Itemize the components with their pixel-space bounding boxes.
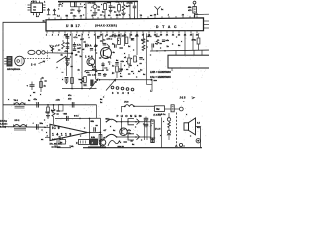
svg-text:68k: 68k xyxy=(91,121,95,123)
svg-text:x: x xyxy=(151,125,153,127)
svg-text:C4x = MM6B5935: C4x = MM6B5935 xyxy=(150,75,171,79)
svg-text:4.7: 4.7 xyxy=(104,129,108,132)
svg-text:x: x xyxy=(62,79,64,81)
svg-text:11: 11 xyxy=(106,35,109,37)
svg-text:1x: 1x xyxy=(167,46,170,48)
svg-text:(14-day: (14-day xyxy=(0,120,8,123)
svg-text:4.7x: 4.7x xyxy=(77,43,82,46)
svg-text:47x: 47x xyxy=(148,35,152,38)
svg-text:47x: 47x xyxy=(34,98,38,101)
svg-text:4A: 4A xyxy=(108,14,111,17)
svg-text:23: 23 xyxy=(178,35,181,37)
svg-text:IC 9: IC 9 xyxy=(52,126,60,130)
svg-text:x: x xyxy=(163,121,165,123)
svg-text:47x: 47x xyxy=(65,50,69,53)
svg-text:4x: 4x xyxy=(102,11,105,14)
svg-text:1x: 1x xyxy=(161,9,164,11)
svg-text:4x: 4x xyxy=(143,73,146,76)
svg-text:+: + xyxy=(33,122,35,124)
svg-text:4x: 4x xyxy=(113,51,116,54)
svg-text:4.7k: 4.7k xyxy=(66,42,71,45)
svg-text:x4: x4 xyxy=(82,48,85,51)
svg-text:x4x: x4x xyxy=(166,39,170,42)
svg-text:L.P: L.P xyxy=(57,45,61,47)
svg-text:J-1.5 Cx: J-1.5 Cx xyxy=(158,114,167,116)
svg-text:x: x xyxy=(89,37,91,39)
svg-text:=: = xyxy=(58,9,60,11)
svg-text:45A: 45A xyxy=(188,6,192,9)
svg-text:0.1: 0.1 xyxy=(113,7,117,9)
svg-text:xxx: xxx xyxy=(120,48,124,50)
svg-text:15: 15 xyxy=(130,35,133,37)
svg-text:4x: 4x xyxy=(147,40,150,43)
svg-text:x: x xyxy=(133,49,135,51)
svg-text:x: x xyxy=(190,135,192,137)
svg-text:xx: xx xyxy=(160,43,163,45)
svg-text:4x: 4x xyxy=(178,44,181,47)
svg-text:listed): listed) xyxy=(0,126,6,129)
svg-text:xx: xx xyxy=(131,141,134,143)
svg-text:x: x xyxy=(133,73,135,75)
svg-text:x: x xyxy=(160,48,162,50)
svg-text:082: 082 xyxy=(64,114,68,116)
svg-text:x: x xyxy=(147,47,149,49)
svg-text:47x 4x: 47x 4x xyxy=(114,35,121,38)
svg-text:24: 24 xyxy=(184,34,187,37)
svg-text:JH-6: JH-6 xyxy=(124,101,129,103)
svg-text:4x: 4x xyxy=(116,59,119,62)
svg-text:xx: xx xyxy=(128,73,131,75)
svg-text:4x: 4x xyxy=(42,77,45,80)
svg-text:22: 22 xyxy=(172,35,175,37)
svg-text:470: 470 xyxy=(68,98,72,101)
svg-text:txt: txt xyxy=(33,9,36,12)
svg-text:xx: xx xyxy=(84,7,87,9)
svg-text:1 4 1 1 9: 1 4 1 1 9 xyxy=(52,132,72,136)
svg-text:x: x xyxy=(30,95,32,97)
svg-text:470x: 470x xyxy=(192,38,197,41)
svg-text:2 - 6: 2 - 6 xyxy=(31,64,36,66)
svg-text:xx: xx xyxy=(57,113,60,115)
svg-text:1: 1 xyxy=(46,35,48,37)
svg-text:4x: 4x xyxy=(132,143,135,146)
svg-text:4x: 4x xyxy=(113,129,116,132)
svg-text:x: x xyxy=(8,99,10,101)
svg-text:D T A C: D T A C xyxy=(156,25,178,29)
svg-text:xx: xx xyxy=(98,10,101,12)
svg-text:4x: 4x xyxy=(120,75,123,78)
svg-text:x: x xyxy=(103,96,105,98)
svg-text:4x: 4x xyxy=(114,10,117,13)
svg-text:1x: 1x xyxy=(128,46,131,48)
svg-text:xx: xx xyxy=(78,35,81,37)
svg-text:x: x xyxy=(150,54,152,56)
svg-text:1xxx: 1xxx xyxy=(107,2,112,4)
svg-text:x: x xyxy=(97,45,99,47)
svg-text:x: x xyxy=(84,127,86,129)
svg-text:x: x xyxy=(141,139,143,141)
svg-text:x: x xyxy=(91,10,93,12)
svg-text:x8: x8 xyxy=(75,54,78,56)
svg-text:4: 4 xyxy=(110,57,112,60)
svg-text:L.R: L.R xyxy=(46,112,50,114)
svg-text:2: 2 xyxy=(52,35,54,37)
svg-text:x: x xyxy=(172,44,174,46)
svg-text:T9-1: T9-1 xyxy=(14,100,19,102)
svg-text:x: x xyxy=(137,65,139,67)
svg-text:x: x xyxy=(42,130,44,132)
svg-text:xx: xx xyxy=(33,92,36,94)
svg-text:470: 470 xyxy=(188,9,192,12)
svg-text:LNB = HH6B5936: LNB = HH6B5936 xyxy=(150,70,171,74)
svg-text:U B 17: U B 17 xyxy=(66,24,80,28)
svg-text:x Ax: x Ax xyxy=(92,74,97,77)
svg-text:5: 5 xyxy=(104,15,106,17)
svg-text:x: x xyxy=(101,4,103,6)
svg-text:P H O N E S: P H O N E S xyxy=(117,114,142,118)
svg-text:20: 20 xyxy=(160,35,163,37)
svg-text:J-2 5: J-2 5 xyxy=(180,96,186,100)
svg-text:x: x xyxy=(62,6,64,8)
svg-text:(7-1.5: (7-1.5 xyxy=(155,128,161,130)
svg-text:4x: 4x xyxy=(78,50,81,53)
svg-text:microphone: microphone xyxy=(7,69,21,71)
svg-text:3w: 3w xyxy=(156,109,159,111)
svg-text:x: x xyxy=(57,67,59,69)
svg-text:xx: xx xyxy=(126,69,129,71)
svg-text:33: 33 xyxy=(182,14,185,16)
svg-text:x: x xyxy=(120,142,122,144)
svg-text:x: x xyxy=(62,3,64,5)
svg-text:xx: xx xyxy=(41,139,44,141)
svg-text:DP-2: DP-2 xyxy=(15,120,21,122)
svg-text:10u: 10u xyxy=(40,123,44,125)
svg-text:xx: xx xyxy=(100,15,103,17)
svg-text:21: 21 xyxy=(66,16,69,18)
svg-text:x: x xyxy=(110,126,112,128)
svg-text:4x: 4x xyxy=(140,68,143,71)
svg-text:xx: xx xyxy=(96,125,99,127)
svg-text:x: x xyxy=(83,15,85,17)
svg-text:4x: 4x xyxy=(61,53,64,56)
svg-text:xx: xx xyxy=(140,63,143,65)
svg-text:xx: xx xyxy=(45,81,48,83)
svg-text:47x: 47x xyxy=(68,94,72,97)
svg-text:x: x xyxy=(96,52,98,54)
svg-text:x: x xyxy=(80,135,82,137)
svg-text:x: x xyxy=(186,114,188,116)
svg-text:xx: xx xyxy=(106,70,109,72)
svg-text:38: 38 xyxy=(154,15,157,17)
svg-text:x1x: x1x xyxy=(121,61,125,63)
svg-text:24: 24 xyxy=(140,14,143,17)
svg-text:xxx: xxx xyxy=(124,142,128,144)
svg-text:1.5: 1.5 xyxy=(197,123,201,125)
svg-text:4.7x: 4.7x xyxy=(92,65,97,68)
svg-text:47x: 47x xyxy=(128,129,132,132)
svg-text:1x: 1x xyxy=(98,6,101,8)
svg-text:(84AX-XXBR): (84AX-XXBR) xyxy=(95,24,117,28)
svg-text:xx: xx xyxy=(128,6,131,8)
svg-text:+: + xyxy=(27,84,29,87)
svg-text:x: x xyxy=(80,4,82,6)
svg-text:)(: )( xyxy=(76,143,78,145)
svg-text:x: x xyxy=(118,40,120,42)
svg-text:4: 4 xyxy=(44,1,46,4)
svg-text:x: x xyxy=(124,53,126,55)
svg-text:x: x xyxy=(136,60,138,62)
svg-text:x: x xyxy=(135,126,137,128)
svg-text:4: 4 xyxy=(168,14,170,17)
svg-text:4x: 4x xyxy=(78,68,81,71)
svg-text:xx: xx xyxy=(150,15,153,17)
svg-text:4x: 4x xyxy=(100,98,103,101)
svg-text:5: 5 xyxy=(70,35,72,37)
svg-text:3: 3 xyxy=(58,35,60,37)
svg-text:x1: x1 xyxy=(124,57,127,59)
svg-text:=: = xyxy=(59,6,61,8)
svg-text:1x: 1x xyxy=(100,102,103,104)
svg-text:25: 25 xyxy=(190,35,193,37)
svg-text:V: V xyxy=(50,44,52,48)
svg-text:xx: xx xyxy=(71,66,74,68)
svg-text:4x: 4x xyxy=(28,99,31,102)
svg-text:+12v: +12v xyxy=(56,100,61,102)
svg-text:.1x: .1x xyxy=(70,13,74,15)
svg-text:xxx: xxx xyxy=(154,80,158,82)
svg-text:x: x xyxy=(124,65,126,67)
svg-text:m: m xyxy=(140,116,142,118)
svg-text:4x: 4x xyxy=(130,64,133,67)
svg-text:xxx: xxx xyxy=(135,35,139,37)
svg-text:x: x xyxy=(131,58,133,60)
svg-text:4x: 4x xyxy=(112,65,115,68)
svg-text:x: x xyxy=(40,94,42,96)
svg-text:5.4: 5.4 xyxy=(36,15,40,18)
svg-text:~: ~ xyxy=(183,102,185,104)
svg-text:x 5 4: x 5 4 xyxy=(31,0,36,3)
svg-text:1 4 A: 1 4 A xyxy=(86,44,92,47)
svg-text:x1: x1 xyxy=(84,42,87,44)
svg-text:x: x xyxy=(46,132,48,134)
svg-text:x: x xyxy=(181,41,183,43)
svg-text:x: x xyxy=(44,119,46,121)
svg-text:x: x xyxy=(143,59,145,61)
svg-text:x: x xyxy=(109,63,111,65)
svg-text:7: 7 xyxy=(129,15,131,17)
svg-text:x: x xyxy=(120,73,122,75)
svg-text:~: ~ xyxy=(62,71,64,75)
svg-text:0 8 2: 0 8 2 xyxy=(74,116,79,118)
svg-text:xx: xx xyxy=(58,49,61,51)
svg-text:um: um xyxy=(33,6,36,8)
svg-text:x2: x2 xyxy=(99,57,102,59)
svg-text:3 0 8 0: 3 0 8 0 xyxy=(112,92,131,95)
